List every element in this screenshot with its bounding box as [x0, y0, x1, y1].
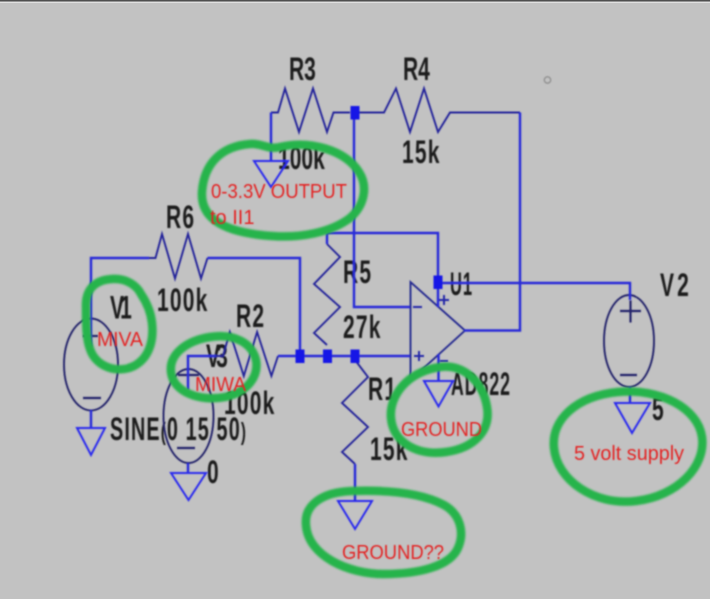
wire V2 bottom to ground [629, 387, 631, 404]
wire V3 to R2 and node bus to op-amp + input [188, 356, 216, 390]
svg-text:to II1: to II1 [210, 207, 254, 229]
svg-text:GROUND: GROUND [401, 419, 482, 441]
ground under V1 [77, 428, 105, 455]
green annotation ellipses [86, 144, 702, 574]
svg-text:0-3.3V OUTPUT: 0-3.3V OUTPUT [211, 181, 347, 203]
resistor R3 [271, 89, 350, 133]
wire R6 left to V1 [91, 258, 149, 347]
top window edge [0, 0, 710, 2]
junction node R1/bus [351, 350, 360, 364]
voltage source V2 circle [604, 295, 654, 387]
svg-text:V2: V2 [660, 266, 690, 303]
junction node V+ supply [434, 276, 443, 290]
resistor R5 [314, 244, 340, 345]
resistor R1 [342, 360, 368, 464]
svg-text:MIVA: MIVA [97, 329, 144, 351]
svg-text:R5: R5 [343, 253, 372, 290]
V2 minus marker [620, 374, 637, 376]
green circle: V1 / MIVA [86, 279, 152, 369]
wire junction R3/R4 down to inverting input [354, 115, 410, 307]
junction node R5/bus [323, 350, 332, 364]
green circle: GROUND at op-amp [391, 367, 488, 453]
svg-text:R3: R3 [289, 50, 317, 87]
wire op-amp V- to ground [437, 354, 439, 382]
ground under R1 [338, 501, 372, 529]
ground under V2 [615, 403, 650, 433]
resistor R6 [149, 234, 208, 279]
wire V+ junction to V2 [438, 283, 630, 300]
junction node R3/R4 [351, 106, 360, 120]
green circle: 5 volt supply [554, 391, 703, 501]
resistor R2 [216, 332, 278, 376]
wire R6 right down to node bus [208, 258, 301, 356]
svg-text:R6: R6 [166, 198, 195, 235]
svg-text:R4: R4 [403, 50, 431, 87]
wire R3 left to ground [270, 113, 272, 162]
wire V3 bottom to ground [187, 463, 189, 474]
V3 minus marker [177, 447, 195, 449]
green circle: 0-3.3V OUTPUT node [202, 144, 364, 237]
svg-text:SINE(0 15 50): SINE(0 15 50) [110, 410, 247, 447]
voltage source V1 circle [64, 319, 118, 411]
V2 plus marker [620, 301, 641, 323]
svg-text:100k: 100k [157, 281, 208, 318]
V1 minus marker [83, 397, 101, 399]
V1 plus marker [83, 335, 98, 337]
svg-text:15k: 15k [402, 133, 441, 170]
ground under V3 [171, 473, 206, 500]
junction node R6/bus [296, 350, 305, 364]
black component labels (vertically stretched LTspice text) [110, 50, 690, 490]
op-amp inverting input marker [413, 306, 422, 308]
svg-text:MIWA: MIWA [195, 374, 247, 396]
op-amp non-inverting input marker [414, 351, 424, 361]
stray cursor dot top right [544, 77, 550, 83]
wire node bus down through R1 [354, 464, 356, 501]
ground under R3 [254, 161, 288, 187]
op-amp V+ power marker [439, 295, 449, 305]
V3 plus marker [178, 374, 199, 376]
red annotation texts [97, 181, 684, 564]
svg-text:0: 0 [207, 453, 220, 490]
op-amp V- power marker [440, 360, 448, 362]
svg-text:27k: 27k [343, 308, 382, 345]
svg-text:5 volt supply: 5 volt supply [574, 443, 684, 465]
op-amp U1 triangle [411, 282, 466, 380]
voltage source V3 circle [164, 369, 214, 463]
wire V1 bottom to ground [90, 410, 92, 429]
resistor R4 [359, 89, 520, 133]
wire feedback from output up to R4 right [464, 113, 520, 331]
ground under op-amp [424, 381, 453, 407]
svg-text:GROUND??: GROUND?? [342, 542, 444, 564]
wire R5 top to op-amp V+ [326, 233, 328, 244]
svg-text:R2: R2 [236, 297, 265, 334]
svg-text:V1: V1 [110, 289, 133, 326]
green circle: GROUND?? [306, 491, 461, 574]
green circle: V3 / MIWA [171, 336, 257, 398]
